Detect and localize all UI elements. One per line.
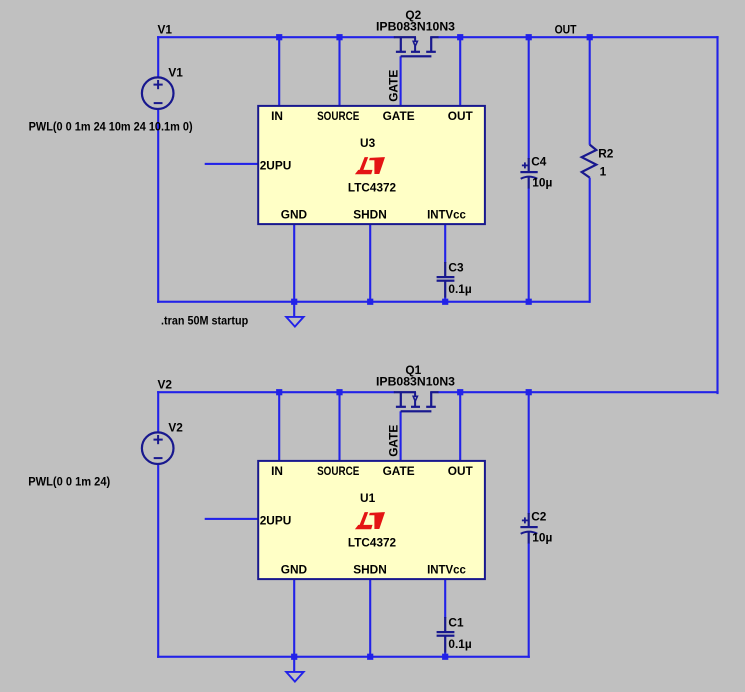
node junction top ground rail / C3 <box>442 299 448 305</box>
node junction OUT rail / R2 <box>587 34 593 40</box>
svg-text:2UPU: 2UPU <box>260 514 292 528</box>
wire: R2 top lead wire <box>589 36 591 145</box>
wire: bottom SHDN pin stub <box>369 578 371 658</box>
wire: top output cap lower wire <box>528 188 530 303</box>
svg-text:OUT: OUT <box>448 464 474 478</box>
node junction bottom ground rail / GND <box>291 654 297 660</box>
svg-text:PWL(0 0 1m 24 10m 24 10.1m 0): PWL(0 0 1m 24 10m 24 10.1m 0) <box>29 120 193 134</box>
wire: R2 bottom lead wire <box>589 178 591 303</box>
svg-text:V2: V2 <box>158 378 173 392</box>
voltage source V2 minus sign <box>154 457 163 459</box>
transistor Q2 body diode arrow <box>413 41 417 46</box>
node junction bottom ground rail / SHDN <box>367 654 373 660</box>
voltage source V2 plus sign <box>154 439 163 441</box>
node junction bottom ground rail / C1 <box>442 654 448 660</box>
wire: top bypass cap lower stub <box>444 297 446 303</box>
wire: bottom input rail left segment <box>157 391 394 393</box>
node junction OUT rail / OUT pin (bottom) <box>457 389 463 395</box>
capacitor C2 curved bottom plate <box>521 532 538 534</box>
svg-text:U1: U1 <box>360 491 376 505</box>
svg-text:SOURCE: SOURCE <box>317 109 359 123</box>
wire: top INTVcc pin stub <box>444 223 446 263</box>
node junction V2 rail / IN pin <box>276 389 282 395</box>
capacitor C1 top lead <box>444 617 446 632</box>
capacitor C3 top plate <box>437 276 455 278</box>
voltage source V1 minus sign <box>154 102 163 104</box>
wire: top output cap upper wire <box>528 37 530 159</box>
wire: top ground rail <box>157 301 590 303</box>
svg-text:R2: R2 <box>598 146 614 160</box>
svg-text:IN: IN <box>271 109 283 123</box>
capacitor C2 top plate <box>520 526 537 528</box>
capacitor C1 bottom plate <box>437 635 455 637</box>
transistor Q2 right channel stub <box>430 37 432 51</box>
wire: bottom bypass cap lower stub <box>444 652 446 658</box>
svg-text:C1: C1 <box>448 615 464 629</box>
wire: top 2UPU pin stub <box>205 163 259 165</box>
wire: bottom INTVcc pin stub <box>444 578 446 618</box>
svg-text:IN: IN <box>271 464 283 478</box>
svg-text:OUT: OUT <box>448 109 474 123</box>
transistor Q2 IPB083N10N3 power NMOS (source lead) <box>394 36 416 38</box>
transistor Q1 right channel stub <box>430 392 432 406</box>
voltage source V2 circle <box>142 432 174 464</box>
capacitor C3 bottom lead <box>444 281 446 298</box>
svg-text:INTVcc: INTVcc <box>427 208 466 222</box>
svg-text:PWL(0 0 1m 24): PWL(0 0 1m 24) <box>28 475 110 489</box>
svg-text:GATE: GATE <box>383 464 415 478</box>
wire: top GND pin stub <box>293 223 295 317</box>
node junction OUT rail / OUT pin <box>457 34 463 40</box>
ground symbol bottom <box>286 672 303 682</box>
svg-text:0.1µ: 0.1µ <box>448 282 471 296</box>
wire: top input rail left segment <box>157 36 394 38</box>
wire: top gate wire <box>400 56 402 107</box>
wire: bottom OUT pin stub <box>459 392 461 462</box>
transistor Q2 left channel stub <box>400 37 402 51</box>
wire: bottom IN pin stub <box>278 392 280 462</box>
voltage source V1 plus sign <box>154 84 163 86</box>
wire: bottom output cap lower wire <box>528 543 530 658</box>
wire: bottom source top vertical <box>157 391 159 433</box>
svg-text:U3: U3 <box>360 136 376 150</box>
capacitor C2 plus polarity mark <box>522 520 528 522</box>
transistor Q1 left channel stub <box>400 392 402 406</box>
svg-text:SHDN: SHDN <box>353 563 387 577</box>
svg-text:IPB083N10N3: IPB083N10N3 <box>376 20 455 34</box>
svg-text:0.1µ: 0.1µ <box>448 637 471 651</box>
node junction top ground rail / SHDN <box>367 299 373 305</box>
voltage source V1 circle <box>142 77 174 109</box>
node junction V2 rail / SOURCE pin <box>336 389 342 395</box>
wire: bottom GND pin stub <box>293 578 295 672</box>
wire: top SHDN pin stub <box>369 223 371 303</box>
op-amp U1 LTC4372 controller box body <box>258 461 485 579</box>
svg-text:2UPU: 2UPU <box>260 159 292 173</box>
capacitor C2 bottom lead <box>528 532 530 544</box>
wire: top OUT pin stub <box>459 37 461 107</box>
svg-text:GATE: GATE <box>386 70 400 102</box>
wire: top output rail right segment <box>438 36 719 38</box>
svg-text:GATE: GATE <box>386 425 400 457</box>
wire: bottom gate wire <box>400 411 402 462</box>
capacitor C4 bottom lead <box>528 177 530 189</box>
capacitor C4 plus polarity mark <box>522 165 528 167</box>
U1 red LT logo <box>355 512 385 529</box>
node junction OUT rail / C4 <box>526 34 532 40</box>
svg-text:GND: GND <box>281 563 308 577</box>
capacitor C2 top lead <box>528 513 530 527</box>
svg-text:C4: C4 <box>531 154 547 168</box>
capacitor C3 top lead <box>444 262 446 277</box>
svg-text:C3: C3 <box>448 260 464 274</box>
transistor Q1 body stub upper <box>414 392 416 396</box>
svg-text:LTC4372: LTC4372 <box>348 535 397 549</box>
svg-text:INTVcc: INTVcc <box>427 563 466 577</box>
ground symbol top <box>286 317 303 327</box>
capacitor C4 top lead <box>528 158 530 172</box>
wire: top source top vertical <box>157 36 159 78</box>
node junction OUT rail / C2 <box>526 389 532 395</box>
transistor Q1 gate plate <box>401 410 432 412</box>
transistor Q2 body stub lower <box>414 46 416 51</box>
transistor Q2 channel segment left <box>396 51 406 53</box>
svg-text:.tran 50M startup: .tran 50M startup <box>161 313 248 327</box>
wire: bottom 2UPU pin stub <box>205 518 259 520</box>
svg-text:10µ: 10µ <box>532 176 552 190</box>
transistor Q1 channel segment left <box>396 406 406 408</box>
wire: bottom source bottom vertical <box>157 463 159 658</box>
svg-text:V2: V2 <box>168 421 183 435</box>
transistor Q1 body diode arrow <box>413 396 417 401</box>
svg-text:V1: V1 <box>158 23 173 37</box>
transistor Q2 channel segment right <box>426 51 436 53</box>
svg-text:10µ: 10µ <box>532 531 552 545</box>
svg-text:SOURCE: SOURCE <box>317 464 359 478</box>
svg-text:1: 1 <box>600 165 607 179</box>
node junction V1 rail / SOURCE pin <box>336 34 342 40</box>
transistor Q1 channel segment middle <box>411 406 420 408</box>
transistor Q2 drain lead <box>430 36 438 38</box>
capacitor C1 bottom lead <box>444 636 446 653</box>
wire: bottom output cap upper wire <box>528 392 530 514</box>
transistor Q1 drain lead <box>430 391 438 393</box>
wire: top SOURCE pin stub <box>338 37 340 107</box>
node junction top ground rail / GND <box>291 299 297 305</box>
svg-text:SHDN: SHDN <box>353 208 387 222</box>
capacitor C4 top plate <box>520 171 537 173</box>
transistor Q1 channel segment right <box>426 406 436 408</box>
U3 red LT logo <box>355 157 385 174</box>
wire: bottom SOURCE pin stub <box>338 392 340 462</box>
transistor Q2 channel segment middle <box>411 51 420 53</box>
capacitor C3 bottom plate <box>437 280 455 282</box>
svg-text:GND: GND <box>281 208 308 222</box>
resistor R2 zigzag body <box>582 145 597 178</box>
transistor Q1 IPB083N10N3 power NMOS (source lead) <box>394 391 416 393</box>
svg-text:LTC4372: LTC4372 <box>348 180 397 194</box>
node junction V1 rail / IN pin <box>276 34 282 40</box>
svg-text:GATE: GATE <box>383 109 415 123</box>
wire: bottom output rail right segment <box>438 391 719 393</box>
wire: bottom ground rail <box>157 656 530 658</box>
svg-text:IPB083N10N3: IPB083N10N3 <box>376 375 455 389</box>
svg-text:V1: V1 <box>168 66 183 80</box>
node junction top ground rail / C4 <box>526 299 532 305</box>
capacitor C4 curved bottom plate <box>521 177 538 179</box>
wire: top source bottom vertical <box>157 108 159 303</box>
transistor Q2 body stub upper <box>414 37 416 41</box>
op-amp U3 LTC4372 controller box body <box>258 106 485 224</box>
svg-text:C2: C2 <box>531 509 547 523</box>
wire: OUT rail right vertical drop to lower circuit <box>716 36 718 394</box>
wire: top IN pin stub <box>278 37 280 107</box>
transistor Q2 gate plate <box>401 55 432 57</box>
transistor Q1 body stub lower <box>414 401 416 406</box>
capacitor C1 top plate <box>437 631 455 633</box>
svg-text:OUT: OUT <box>555 22 578 36</box>
